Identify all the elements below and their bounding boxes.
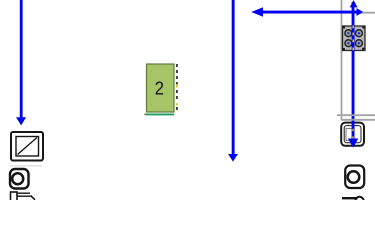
terminal block U2 (gray 2x2 screw terminal icon) xyxy=(343,26,366,51)
wire W2 (middle vertical net) xyxy=(228,0,238,162)
pin 1 xyxy=(345,30,352,37)
connector J2 (bottom-left partial glyph) xyxy=(11,192,36,202)
component U1 (bottom-left box with diagonal) xyxy=(11,132,43,161)
wire underline below U1 xyxy=(10,165,42,167)
connector J4 (bottom-right partial glyph: bar and circle) xyxy=(342,197,364,205)
node dot (orange, left of teal bar) xyxy=(144,114,146,116)
pin 2 xyxy=(355,30,362,37)
gray box outline (off-screen component body, right side) xyxy=(342,0,375,121)
gray box bottom edge lines (over wire) xyxy=(337,115,375,120)
connector J3 (bottom-right circle-in-box glyph) xyxy=(345,166,364,189)
svg-text:2: 2 xyxy=(155,78,164,99)
yellow dashed centerline through U3 xyxy=(352,129,353,139)
part 2 (green highlighted block) xyxy=(147,64,175,112)
connector J1 (bottom-left circle-in-box glyph) xyxy=(10,169,29,189)
wire bottom bar of part 2 (teal) xyxy=(146,114,174,116)
yellow dashed centerline through U2 xyxy=(352,26,354,51)
pads (blue) xyxy=(347,32,349,34)
corner notches xyxy=(343,26,365,50)
icon U3 (bottom-right rounded component) xyxy=(341,123,364,146)
pin 4 xyxy=(355,40,362,47)
wire selection dashes (right of part 2) xyxy=(176,64,178,112)
wire W3 (horizontal double-arrow net at top right) xyxy=(251,7,363,16)
wire W4 (right vertical net with up and down arrows) xyxy=(348,0,358,148)
wire W1 (left vertical net) xyxy=(16,0,26,125)
pin 3 xyxy=(345,40,352,47)
